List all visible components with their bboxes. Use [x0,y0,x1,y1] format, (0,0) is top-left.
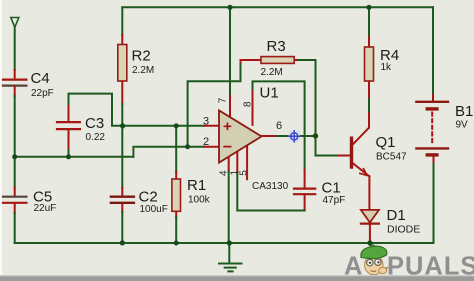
junction R1 top [174,123,179,128]
wire output node down to Q1 base [316,136,340,156]
svg-text:BC547: BC547 [376,152,407,163]
resistor R1 leads [175,126,177,172]
svg-text:C3: C3 [85,115,104,132]
capacitor C4 [3,78,26,80]
svg-text:7: 7 [217,97,228,103]
svg-text:U1: U1 [260,85,279,102]
svg-text:D1: D1 [387,207,406,224]
diode D1 [361,210,379,223]
capacitor C5 [3,196,26,198]
resistor R2 [118,45,127,82]
wire emitter to D1 [368,176,370,210]
wire bottom rail [15,242,434,244]
wire battery bottom lead [433,162,435,243]
junction R4 top [366,5,371,10]
wire op-amp pin8 to C1 top [253,81,305,169]
capacitor C5 leads [14,157,16,188]
pin numbers [203,97,282,176]
svg-text:1k: 1k [381,62,393,73]
svg-text:8: 8 [242,101,253,107]
junction antenna/C5 node [12,154,17,159]
wire output pin6 [262,135,278,137]
junction pin2/R3 node [185,144,190,149]
svg-text:2.2M: 2.2M [132,65,154,76]
capacitor C1 [294,188,315,190]
capacitor C2 [111,195,134,197]
wire C4 bottom to node [14,87,16,96]
svg-text:5: 5 [239,170,250,176]
svg-text:0.22: 0.22 [86,132,106,143]
wire pin2 feedback branch up [188,62,241,146]
svg-text:C1: C1 [322,180,341,197]
node marker (blue) at output [288,130,301,143]
svg-text:DIODE: DIODE [387,224,420,236]
svg-text:4: 4 [219,170,230,176]
svg-text:3: 3 [203,115,209,127]
svg-text:2: 2 [203,136,209,148]
svg-text:B1: B1 [455,103,473,120]
junction R2/C2/pin3 node [120,123,125,128]
wire C3 top to pin3 route [69,94,123,126]
transistor Q1 [350,137,353,169]
junction ground node [227,240,232,245]
svg-text:C2: C2 [139,189,158,206]
svg-text:C4: C4 [31,70,50,87]
svg-text:47pF: 47pF [323,195,346,206]
svg-text:22pF: 22pF [31,88,54,99]
junction pin7 supply [227,5,232,10]
resistor R4 [365,47,374,81]
wire left mid horizontal [15,156,134,158]
junction D1 cathode [367,240,372,245]
resistor R1 [172,179,181,211]
capacitor C2 leads [121,188,123,196]
wire op-amp pin7 supply [229,7,231,96]
svg-text:22uF: 22uF [34,203,57,214]
junction C3 bottom [66,154,71,159]
op-amp U1 [219,110,262,162]
capacitor C3 [57,121,80,123]
wire R3 right down to output node [315,60,317,136]
svg-text:R2: R2 [132,48,151,65]
junction C2 bottom [120,240,125,245]
junction output node [313,133,318,138]
svg-text:100k: 100k [188,195,211,206]
wire C1 bottom to pin1 [304,194,306,210]
svg-text:9V: 9V [456,120,469,131]
resistor R3 leads [241,60,262,62]
junction R1 bottom [174,241,179,246]
wire antenna stem [14,27,16,70]
antenna AE [11,18,19,28]
svg-text:Q1: Q1 [376,134,396,151]
wire D1 to rail [369,224,371,243]
svg-text:2.2M: 2.2M [261,67,283,78]
battery B1 [416,101,448,103]
pin5 stub [246,147,248,180]
wire pin3 [123,125,204,127]
resistor R3 [261,57,294,64]
mascot [361,245,388,275]
wire battery top lead [432,7,434,95]
svg-text:100uF: 100uF [140,204,168,215]
svg-text:6: 6 [276,120,282,132]
wire top rail [122,6,433,8]
bottom window strip [0,275,474,277]
svg-text:R1: R1 [187,177,206,194]
left white edge [0,0,2,276]
ground [228,243,230,263]
svg-text:R3: R3 [267,38,286,55]
svg-text:CA3130: CA3130 [252,181,289,192]
wire op-amp pin4 to ground rail [228,157,230,172]
resistor R4 leads [368,7,370,37]
watermark APPUALS [344,245,474,280]
capacitor C3 leads [68,130,70,150]
resistor R2 leads [121,7,123,35]
wire jog to pin2 [133,147,204,157]
